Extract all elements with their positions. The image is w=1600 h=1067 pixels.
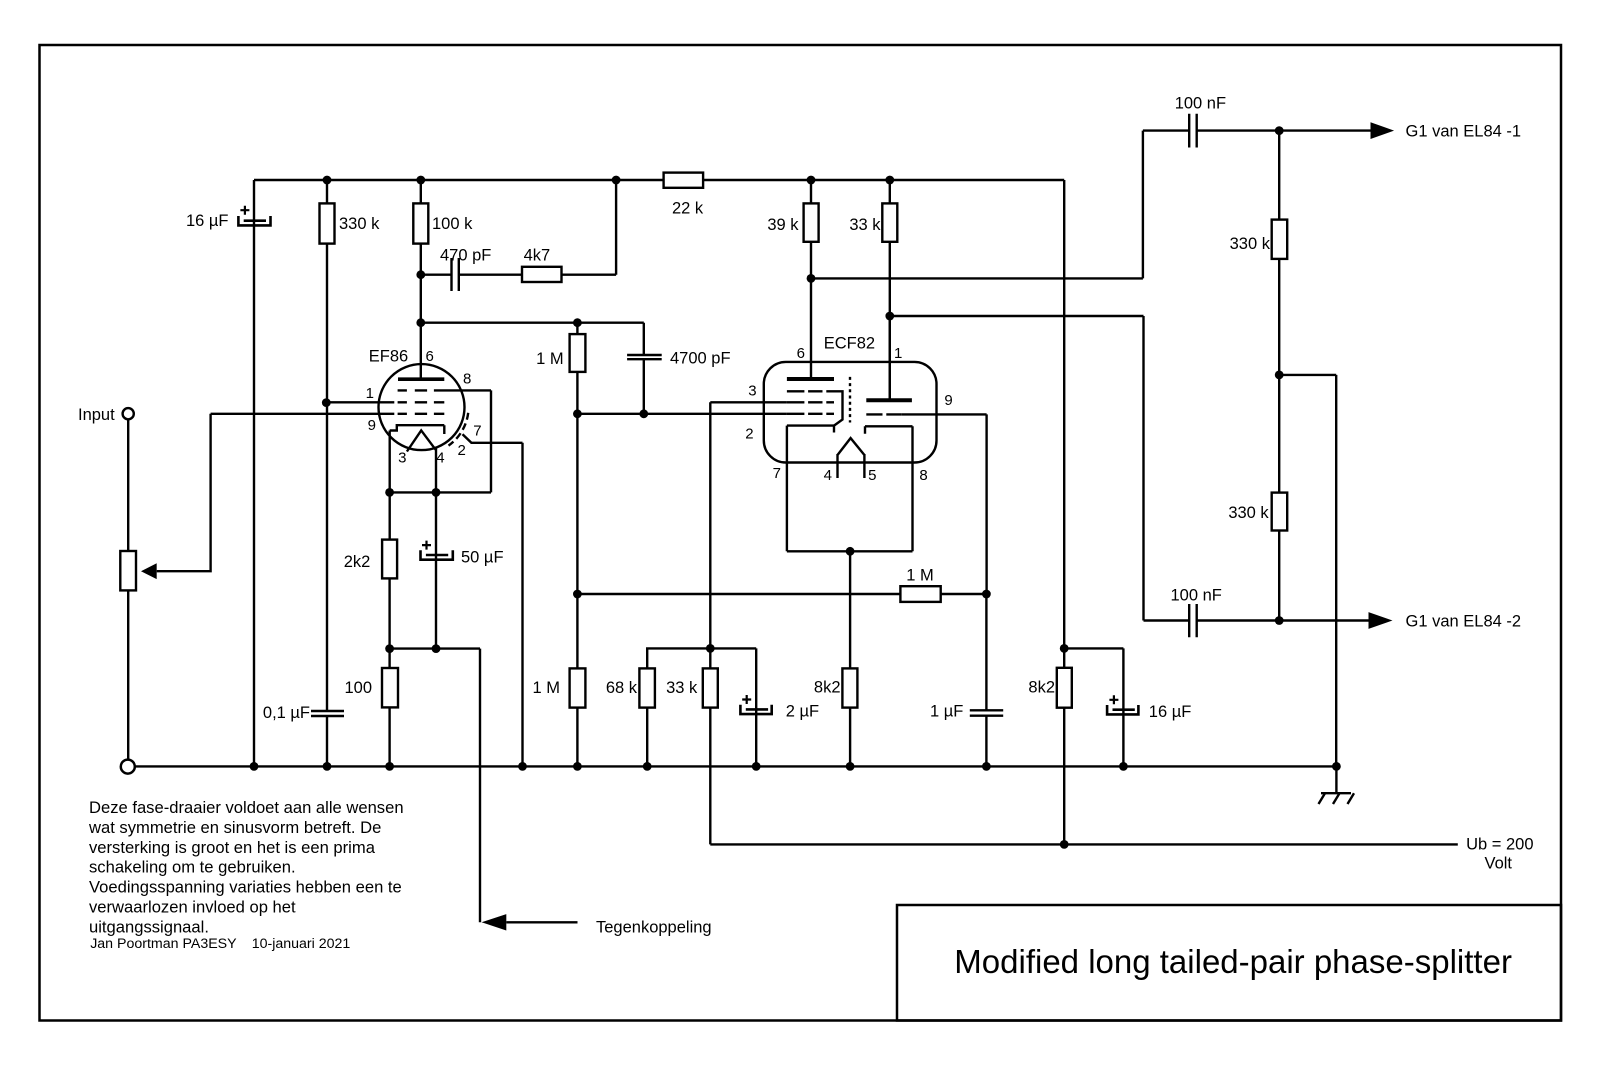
svg-text:G1 van EL84 -1: G1 van EL84 -1 [1406,123,1522,141]
svg-text:G1 van EL84 -2: G1 van EL84 -2 [1406,613,1522,631]
svg-text:33 k: 33 k [666,679,698,697]
svg-text:33 k: 33 k [849,216,881,234]
svg-text:9: 9 [368,417,376,434]
svg-text:schakeling om te gebruiken.: schakeling om te gebruiken. [89,858,296,877]
svg-text:EF86: EF86 [369,347,408,365]
svg-text:2k2: 2k2 [344,553,371,571]
svg-text:330 k: 330 k [1230,235,1271,253]
svg-text:Modified long tailed-pair phas: Modified long tailed-pair phase-splitter [954,943,1512,980]
svg-text:470 pF: 470 pF [440,247,491,265]
svg-text:8: 8 [463,371,471,388]
svg-text:39 k: 39 k [767,216,799,234]
svg-text:1 µF: 1 µF [930,702,963,720]
svg-text:3: 3 [398,449,406,466]
svg-text:1: 1 [366,385,374,402]
svg-text:1 M: 1 M [536,350,564,368]
svg-text:4700 pF: 4700 pF [670,350,731,368]
svg-text:Volt: Volt [1485,854,1513,872]
svg-text:Ub = 200: Ub = 200 [1466,836,1533,854]
svg-text:9: 9 [944,392,952,409]
svg-text:50 µF: 50 µF [461,549,504,567]
svg-text:ECF82: ECF82 [824,335,875,353]
svg-text:16 µF: 16 µF [1149,703,1192,721]
svg-text:uitgangssignaal.: uitgangssignaal. [89,917,209,936]
svg-text:1: 1 [894,345,902,362]
svg-text:4: 4 [824,467,832,484]
svg-text:22 k: 22 k [672,200,704,218]
svg-text:7: 7 [773,465,781,482]
svg-text:3: 3 [748,383,756,400]
svg-text:100: 100 [344,679,372,697]
svg-text:330 k: 330 k [339,215,380,233]
svg-text:Voedingsspanning variaties heb: Voedingsspanning variaties hebben een te [89,878,402,897]
svg-text:8: 8 [919,467,927,484]
svg-text:Input: Input [78,406,115,424]
svg-text:wat symmetrie en sinusvorm bet: wat symmetrie en sinusvorm betreft. De [88,818,381,837]
svg-text:0,1 µF: 0,1 µF [263,704,310,722]
svg-text:330 k: 330 k [1228,504,1269,522]
svg-text:Deze fase-draaier voldoet aan: Deze fase-draaier voldoet aan alle wense… [89,798,404,817]
svg-text:4k7: 4k7 [524,247,551,265]
svg-text:100 k: 100 k [432,215,473,233]
svg-text:4: 4 [436,449,444,466]
svg-text:verwaarlozen invloed op het: verwaarlozen invloed op het [89,898,296,917]
svg-text:versterking is groot en het is: versterking is groot en het is een prima [89,838,376,857]
svg-text:68 k: 68 k [606,679,638,697]
svg-text:100 nF: 100 nF [1175,95,1226,113]
svg-text:8k2: 8k2 [1028,679,1055,697]
svg-text:2: 2 [458,442,466,459]
svg-text:8k2: 8k2 [814,679,841,697]
svg-text:2: 2 [745,426,753,443]
svg-text:2 µF: 2 µF [786,703,819,721]
svg-text:10-januari 2021: 10-januari 2021 [252,936,351,952]
svg-text:7: 7 [473,423,481,440]
svg-text:1 M: 1 M [532,679,560,697]
svg-text:16 µF: 16 µF [186,212,229,230]
svg-text:Tegenkoppeling: Tegenkoppeling [596,919,712,937]
svg-text:5: 5 [868,467,876,484]
svg-text:Jan Poortman PA3ESY: Jan Poortman PA3ESY [90,936,237,952]
svg-text:1 M: 1 M [906,567,934,585]
svg-text:6: 6 [797,345,805,362]
svg-text:6: 6 [426,348,434,365]
svg-text:100 nF: 100 nF [1171,587,1222,605]
